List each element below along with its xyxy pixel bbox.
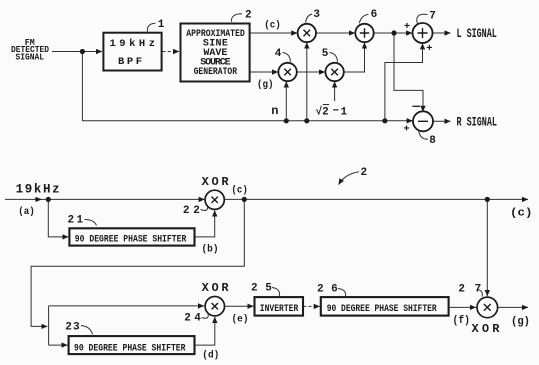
svg-text:19kHz: 19kHz — [16, 183, 60, 197]
svg-text:1: 1 — [158, 19, 165, 31]
svg-text:7: 7 — [429, 11, 436, 23]
svg-text:n: n — [271, 104, 278, 118]
svg-text:(g): (g) — [511, 316, 530, 328]
svg-text:(f): (f) — [453, 315, 471, 327]
svg-text:(g): (g) — [257, 79, 274, 91]
svg-text:(c): (c) — [231, 184, 248, 196]
svg-text:+: + — [404, 21, 410, 33]
svg-text:4: 4 — [275, 48, 282, 60]
svg-text:90 DEGREE PHASE SHIFTER: 90 DEGREE PHASE SHIFTER — [327, 304, 437, 315]
svg-text:√2: √2 — [316, 105, 329, 118]
svg-text:XOR: XOR — [202, 281, 230, 295]
svg-text:(c): (c) — [264, 20, 281, 32]
svg-text:R SIGNAL: R SIGNAL — [457, 116, 498, 130]
svg-text:GENERATOR: GENERATOR — [194, 67, 238, 78]
svg-text:1: 1 — [341, 106, 348, 118]
svg-text:2: 2 — [361, 167, 368, 179]
svg-text:2: 2 — [245, 10, 252, 22]
svg-text:XOR: XOR — [472, 322, 501, 336]
svg-text:(b): (b) — [202, 243, 219, 255]
svg-text:8: 8 — [429, 135, 436, 147]
svg-text:(e): (e) — [232, 314, 249, 326]
svg-text:+: + — [403, 124, 409, 136]
svg-text:(a): (a) — [18, 206, 35, 218]
svg-text:3: 3 — [313, 9, 320, 21]
svg-text:XOR: XOR — [202, 175, 230, 189]
svg-text:−: − — [333, 106, 340, 118]
svg-text:23: 23 — [65, 321, 80, 333]
svg-text:SIGNAL: SIGNAL — [16, 51, 45, 62]
svg-text:(d): (d) — [202, 350, 219, 362]
svg-text:(c): (c) — [510, 207, 533, 219]
svg-text:+: + — [426, 43, 432, 55]
svg-text:5: 5 — [322, 48, 329, 60]
svg-text:6: 6 — [371, 9, 378, 21]
svg-text:90 DEGREE PHASE SHIFTER: 90 DEGREE PHASE SHIFTER — [74, 344, 186, 355]
svg-text:90 DEGREE PHASE SHIFTER: 90 DEGREE PHASE SHIFTER — [75, 234, 187, 245]
svg-text:L SIGNAL: L SIGNAL — [457, 27, 497, 41]
svg-text:INVERTER: INVERTER — [260, 304, 299, 315]
svg-text:BPF: BPF — [118, 56, 142, 68]
